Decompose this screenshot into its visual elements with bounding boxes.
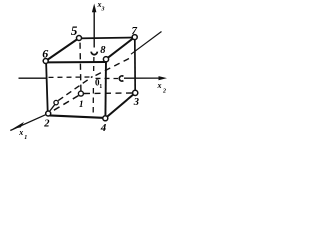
svg-text:3: 3 (101, 7, 105, 13)
svg-text:1: 1 (99, 84, 102, 90)
svg-text:1: 1 (79, 99, 84, 109)
svg-text:2: 2 (43, 119, 50, 130)
svg-text:x: x (157, 81, 162, 90)
svg-text:6: 6 (42, 46, 48, 60)
svg-text:3: 3 (133, 97, 139, 108)
svg-text:4: 4 (100, 122, 107, 134)
svg-text:2: 2 (162, 89, 166, 95)
svg-text:7: 7 (132, 25, 138, 37)
svg-text:8: 8 (100, 45, 106, 56)
svg-text:1: 1 (24, 135, 27, 141)
svg-text:x: x (18, 128, 23, 137)
svg-text:5: 5 (71, 23, 78, 38)
